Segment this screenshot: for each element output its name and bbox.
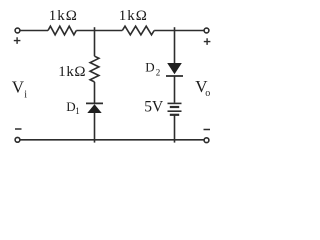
- wire top-middle: [76, 30, 122, 32]
- svg-text:V: V: [12, 78, 25, 97]
- svg-text:5V: 5V: [144, 99, 164, 116]
- wire top-left: [20, 30, 48, 32]
- polarity minus bottom-right: [204, 129, 211, 131]
- wire branch2 middle: [174, 76, 176, 103]
- polarity plus top-left: [14, 37, 21, 44]
- svg-text:1kΩ: 1kΩ: [119, 8, 148, 24]
- resistor zigzag 2: [122, 26, 154, 35]
- terminal top-left: [15, 28, 20, 33]
- wire branch1 middle: [94, 82, 96, 103]
- wire branch2 lower: [174, 115, 176, 143]
- wire branch1 upper (node A stub): [94, 27, 96, 56]
- diode D1: [86, 103, 103, 113]
- terminal top-right: [204, 28, 209, 33]
- svg-text:2: 2: [156, 67, 161, 77]
- wire bottom rail: [20, 139, 204, 141]
- svg-text:D: D: [145, 59, 154, 74]
- wire branch1 lower: [94, 113, 96, 143]
- resistor R zigzag 1: [48, 26, 76, 35]
- wire branch2 upper (node B stub): [174, 27, 176, 63]
- polarity plus top-right: [204, 38, 211, 45]
- svg-text:1: 1: [75, 106, 80, 116]
- svg-text:1kΩ: 1kΩ: [58, 64, 86, 80]
- battery 5V plates: [168, 103, 182, 114]
- wire top-right: [154, 30, 204, 32]
- diode D2: [166, 63, 183, 76]
- polarity minus bottom-left: [15, 128, 22, 130]
- svg-text:o: o: [205, 88, 210, 99]
- svg-text:1kΩ: 1kΩ: [49, 8, 78, 24]
- terminal bottom-right: [204, 138, 209, 143]
- svg-text:i: i: [24, 89, 27, 100]
- terminal bottom-left: [15, 137, 20, 142]
- resistor zigzag 3 vertical: [90, 56, 99, 82]
